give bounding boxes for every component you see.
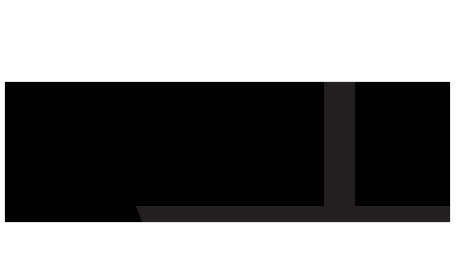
band left wedge: [136, 206, 142, 222]
vertical column bar (rich black #231f20): [324, 82, 356, 222]
underline band (rich black #231f20): [142, 206, 450, 222]
logo dark block: [5, 82, 450, 222]
